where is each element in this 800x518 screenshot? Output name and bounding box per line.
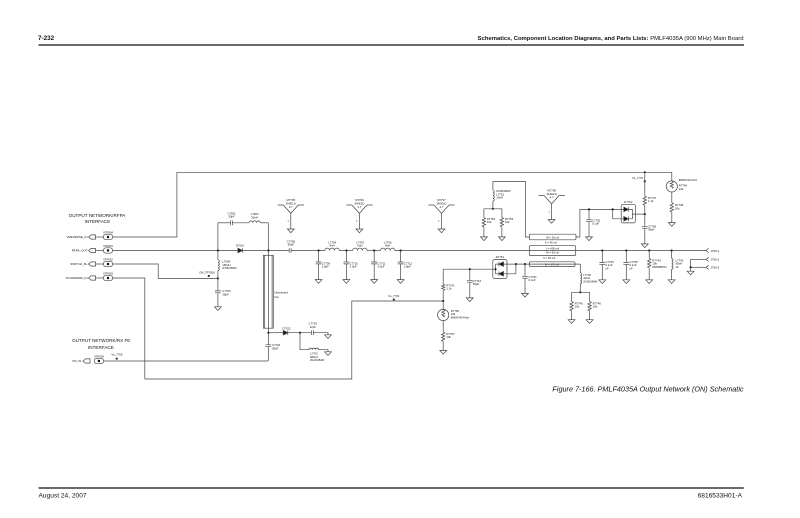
node junction L7751 bottom bbox=[492, 208, 494, 210]
inductor L7742 shunt bbox=[672, 251, 673, 280]
svg-text:D7752: D7752 bbox=[624, 200, 633, 204]
dual diode D7751 package bbox=[493, 260, 507, 279]
wire bypass riser left bbox=[217, 223, 219, 251]
node junction C7755 bbox=[625, 249, 627, 251]
svg-text:39pF: 39pF bbox=[272, 347, 279, 351]
resistor R7746 bbox=[588, 292, 591, 319]
via VTR501 bbox=[103, 248, 112, 253]
svg-text:SWITCH_B+: SWITCH_B+ bbox=[70, 262, 88, 266]
via VTR504 bbox=[103, 234, 112, 239]
svg-text:1.8pF: 1.8pF bbox=[322, 265, 329, 269]
wire D7752 internal joins bbox=[621, 209, 645, 218]
wire to termination resistors bbox=[484, 208, 502, 210]
svg-text:INTERFACE: INTERFACE bbox=[85, 219, 111, 224]
svg-text:10k: 10k bbox=[446, 335, 451, 339]
ground L7742 bbox=[668, 280, 675, 284]
node junction stripline bottom diode tap bbox=[267, 332, 269, 334]
node junction shunt cap 2 bbox=[345, 249, 347, 251]
node junction shunt cap 3 bbox=[373, 249, 375, 251]
svg-text:12pF: 12pF bbox=[310, 325, 317, 329]
svg-text:Distributed: Distributed bbox=[275, 290, 289, 294]
svg-text:uF: uF bbox=[606, 267, 610, 271]
inductor L7706 bbox=[381, 248, 395, 250]
test point ON_TP7506 dot bbox=[208, 275, 210, 277]
svg-text:RX_IN: RX_IN bbox=[72, 359, 81, 363]
wire top rail bbox=[177, 171, 672, 173]
test point Vs_7770 dot bbox=[644, 180, 646, 182]
inductor L7503 bbox=[249, 221, 260, 223]
node junction main line at bypass left bbox=[217, 249, 219, 251]
node junction C7744 tap bbox=[469, 268, 471, 270]
node junction Vs rail thermistor bbox=[442, 300, 444, 302]
shield M7707 bbox=[428, 205, 454, 229]
ground R7744 bbox=[646, 280, 653, 284]
wire D7702 to C7703 bbox=[288, 332, 312, 334]
wire rail to thermistor R7749 bbox=[671, 172, 673, 181]
ground M7706 bbox=[356, 229, 363, 233]
node junction C7752 tap bbox=[588, 208, 590, 210]
port tag VREVERSE_IN bbox=[89, 235, 96, 239]
capacitor C7756 bbox=[642, 214, 648, 244]
svg-text:1.8pF: 1.8pF bbox=[404, 265, 411, 269]
header rule bbox=[39, 44, 745, 45]
wire VFORWARD_IN to bottom rail bbox=[113, 278, 145, 379]
ground R7751 bbox=[440, 350, 447, 354]
node junction J750 bracket bbox=[690, 266, 692, 268]
svg-text:J750-2: J750-2 bbox=[711, 258, 720, 262]
wire bypass mid segment bbox=[232, 222, 249, 224]
ground C7744 bbox=[466, 298, 473, 302]
ground C7754 bbox=[599, 280, 606, 284]
svg-text:VTR503: VTR503 bbox=[103, 271, 113, 275]
svg-text:0.1uF: 0.1uF bbox=[528, 278, 535, 282]
capacitor C7708 series bbox=[289, 248, 291, 253]
svg-text:L = 400 mil: L = 400 mil bbox=[546, 247, 560, 251]
wire tag to via row3 bbox=[96, 263, 104, 265]
ground M7708 bbox=[548, 220, 555, 224]
diode D7501 bbox=[238, 248, 243, 253]
node junction shunt cap 1 bbox=[318, 249, 320, 251]
wire main L7705 to L7706 bbox=[367, 250, 380, 252]
wire RX_IN line bbox=[104, 360, 268, 362]
wire coupler reverse port stub bbox=[493, 181, 529, 237]
wire main line C7708 to L7704 bbox=[291, 250, 325, 252]
capacitor C7755 shunt bbox=[623, 251, 629, 280]
test point Vs_7706 dot bbox=[116, 358, 118, 360]
stripline distributed element bbox=[263, 255, 273, 328]
connector pin J750-3 bbox=[706, 265, 709, 269]
node junction D7751 input bbox=[494, 268, 496, 270]
svg-text:10k: 10k bbox=[679, 187, 684, 191]
wire VREVERSE_IN to top rail riser bbox=[113, 236, 177, 238]
inductor L7702 bbox=[309, 348, 319, 350]
resistor R7741 bbox=[442, 269, 445, 301]
wire J750-2 bbox=[691, 258, 706, 260]
thermistor R7749 bbox=[666, 181, 677, 192]
svg-text:S = 45 mil: S = 45 mil bbox=[545, 240, 557, 244]
svg-text:W = 50 mil: W = 50 mil bbox=[546, 251, 559, 255]
capacitor C7751 bbox=[522, 264, 528, 293]
svg-text:39pF: 39pF bbox=[648, 228, 655, 232]
resistor R7744 shunt bbox=[648, 251, 651, 280]
diode D7702 bbox=[283, 330, 288, 335]
svg-text:VTR504: VTR504 bbox=[103, 230, 113, 234]
wire bypass top left segment bbox=[218, 222, 231, 224]
wire riser to top rail bbox=[176, 172, 178, 237]
svg-text:D7751: D7751 bbox=[496, 255, 505, 259]
wire to forward termination resistors bbox=[572, 291, 590, 293]
inductor L7704 bbox=[325, 248, 339, 250]
svg-text:OUTPUT NETWORK/RX FE: OUTPUT NETWORK/RX FE bbox=[72, 338, 130, 343]
svg-text:S = 55 mil: S = 55 mil bbox=[543, 256, 555, 260]
port tag RX_IN bbox=[83, 359, 90, 363]
svg-text:10k: 10k bbox=[675, 206, 680, 210]
node junction shunt cap 4 bbox=[400, 249, 402, 251]
svg-text:VREVERSE_IN: VREVERSE_IN bbox=[66, 235, 87, 239]
svg-text:RFPA_OUT: RFPA_OUT bbox=[72, 249, 88, 253]
wire tag to via row4 bbox=[96, 277, 104, 279]
diode D7752B bbox=[624, 217, 629, 222]
node junction L7506 top bbox=[217, 277, 219, 279]
diode D7751B bbox=[499, 272, 504, 277]
resistor R7745 bbox=[570, 292, 573, 319]
svg-text:J750-1: J750-1 bbox=[711, 249, 720, 253]
svg-text:D7702: D7702 bbox=[282, 326, 291, 330]
ground C7751 bbox=[522, 293, 529, 297]
svg-text:4.7: 4.7 bbox=[289, 205, 293, 209]
wire J750 shield bracket bbox=[690, 259, 692, 271]
coupler line W26 bbox=[529, 234, 576, 240]
inductor L7705 bbox=[353, 248, 367, 250]
svg-text:9nH: 9nH bbox=[330, 244, 335, 248]
shield M7705 bbox=[278, 205, 304, 229]
svg-text:Vs_7770: Vs_7770 bbox=[632, 176, 643, 180]
ground C7756 bbox=[641, 244, 648, 248]
ground J750 bbox=[687, 271, 694, 275]
svg-text:9nH: 9nH bbox=[385, 244, 390, 248]
diode D7751A bbox=[499, 262, 504, 267]
svg-text:0.1uF: 0.1uF bbox=[592, 222, 599, 226]
svg-text:VTR501: VTR501 bbox=[103, 244, 113, 248]
svg-text:ON_TP7506: ON_TP7506 bbox=[199, 270, 215, 274]
resistor R7751 bbox=[442, 321, 445, 351]
svg-text:0805WBPS1: 0805WBPS1 bbox=[652, 266, 667, 269]
svg-text:Vs_7704: Vs_7704 bbox=[388, 294, 399, 298]
wire J750-3 bbox=[691, 266, 706, 268]
wire main L7704 to L7705 bbox=[339, 250, 352, 252]
node junction D7751 outputs join bbox=[515, 263, 517, 265]
wire coupler reverse out to detector bbox=[576, 209, 621, 237]
svg-text:10k: 10k bbox=[593, 305, 598, 309]
svg-text:Schematics, Component Location: Schematics, Component Location Diagrams,… bbox=[478, 36, 744, 42]
ground C7752 bbox=[586, 237, 593, 241]
test point Vs_7704 dot bbox=[393, 299, 395, 301]
capacitor C7752 bbox=[586, 209, 592, 237]
node junction L7745 bottom bbox=[579, 291, 581, 293]
svg-text:10k: 10k bbox=[505, 220, 510, 224]
ground C7755 bbox=[623, 280, 630, 284]
svg-text:VFORWARD_IN: VFORWARD_IN bbox=[65, 276, 87, 280]
wire branch to lower diode input bbox=[613, 209, 624, 218]
node junction diode pair branch bbox=[612, 208, 614, 210]
connector pin J750-1 bbox=[706, 248, 709, 252]
coupler line W170 bbox=[529, 262, 575, 267]
ground C7709 bbox=[315, 280, 322, 284]
svg-text:1.1k: 1.1k bbox=[446, 287, 452, 291]
capacitor C7501 bbox=[231, 221, 233, 226]
node junction main at stripline top bbox=[267, 249, 269, 251]
node junction rail R7747 bbox=[644, 171, 646, 173]
capacitor C7703 bbox=[312, 330, 314, 335]
wire D7751 internal joins bbox=[496, 264, 516, 274]
ground R7745 bbox=[568, 320, 575, 324]
svg-text:OUTPUT NETWORK/RFPA: OUTPUT NETWORK/RFPA bbox=[69, 213, 127, 218]
ground R7752 bbox=[481, 237, 488, 241]
node junction C7754 bbox=[601, 249, 603, 251]
svg-text:August 24, 2007: August 24, 2007 bbox=[39, 493, 87, 500]
svg-text:VTR502: VTR502 bbox=[103, 257, 113, 261]
resistor R7752 bbox=[482, 209, 485, 237]
svg-text:10k: 10k bbox=[487, 220, 492, 224]
resistor R7748 bbox=[670, 192, 673, 223]
shield M7706 bbox=[346, 205, 372, 229]
ground C7705 bbox=[215, 307, 222, 311]
capacitor C7754 shunt bbox=[599, 251, 605, 280]
node junction L7742 bbox=[671, 249, 673, 251]
wire main line D7501 to C7708 bbox=[243, 250, 290, 252]
svg-text:uF: uF bbox=[630, 267, 634, 271]
svg-text:2N1601B4W: 2N1601B4W bbox=[222, 267, 237, 270]
diode D7752A bbox=[624, 207, 629, 212]
svg-text:uF: uF bbox=[676, 265, 680, 269]
shield M7708 bbox=[539, 196, 565, 220]
svg-text:10k: 10k bbox=[575, 305, 580, 309]
port tag RFPA_OUT bbox=[89, 248, 96, 252]
ground C7710 bbox=[343, 280, 350, 284]
wire D7751 to coupler W170 bbox=[516, 263, 580, 265]
port tag VFORWARD_IN bbox=[89, 276, 96, 280]
capacitor C7710 shunt bbox=[344, 251, 350, 280]
capacitor C7711 shunt bbox=[371, 251, 377, 280]
svg-text:9880/9740 Parts: 9880/9740 Parts bbox=[679, 179, 698, 182]
wire main L7706 to coupler bbox=[395, 250, 706, 252]
wire stub main to stripline bbox=[267, 251, 269, 362]
via VTR505 bbox=[94, 358, 103, 363]
capacitor C7704 below stripline bbox=[266, 345, 272, 347]
svg-text:10nH: 10nH bbox=[496, 196, 503, 200]
wire bypass top right segment bbox=[260, 222, 268, 224]
inductor L7745 bbox=[580, 273, 581, 292]
wire C7703 to ground bbox=[313, 333, 328, 335]
node junction R7744 bbox=[648, 249, 650, 251]
node junction D7702 output bbox=[299, 332, 301, 334]
svg-text:2N1601B4W: 2N1601B4W bbox=[310, 359, 325, 362]
wire bypass riser right bbox=[267, 223, 269, 251]
svg-text:39pF: 39pF bbox=[288, 243, 295, 247]
via VTR503 bbox=[103, 275, 112, 280]
svg-text:6816533H01-A: 6816533H01-A bbox=[698, 492, 743, 499]
ground C7703 bbox=[325, 335, 332, 339]
connector pin J750-2 bbox=[706, 257, 709, 261]
ground L7702 bbox=[325, 352, 332, 356]
wire bottom rail bbox=[145, 301, 443, 379]
port tag SWITCH_B+ bbox=[89, 262, 96, 266]
wire coupler forward port to L7745 bbox=[579, 264, 581, 273]
wire lower detector feed bbox=[443, 268, 495, 270]
wire junction to thermistor bbox=[442, 301, 444, 309]
svg-text:30nH: 30nH bbox=[251, 215, 258, 219]
capacitor C7712 shunt bbox=[398, 251, 404, 280]
svg-text:VTR505: VTR505 bbox=[94, 354, 104, 358]
ground R7753 bbox=[499, 237, 506, 241]
resistor R7747 bbox=[643, 172, 646, 214]
svg-text:1.1k: 1.1k bbox=[648, 199, 654, 203]
svg-text:J750-3: J750-3 bbox=[711, 266, 720, 270]
svg-text:9nH: 9nH bbox=[357, 244, 362, 248]
resistor R7753 bbox=[500, 209, 503, 237]
wire tag to via row2 bbox=[96, 250, 104, 252]
svg-text:9880/9740 Parts: 9880/9740 Parts bbox=[451, 317, 470, 320]
node junction detector output bbox=[644, 213, 646, 215]
node junction C7751 tap bbox=[524, 263, 526, 265]
capacitor C7705 bbox=[215, 291, 221, 307]
inductor L7751 bbox=[493, 181, 494, 208]
svg-text:W = 26 mil: W = 26 mil bbox=[546, 235, 559, 239]
inductor L7506 bbox=[218, 251, 219, 291]
svg-text:3.0pF: 3.0pF bbox=[377, 265, 384, 269]
svg-text:Vs_7706: Vs_7706 bbox=[111, 353, 122, 357]
ground C7711 bbox=[371, 280, 378, 284]
svg-text:Figure 7-166. PMLF4035A Output: Figure 7-166. PMLF4035A Output Network (… bbox=[552, 385, 744, 394]
ground R7748 bbox=[668, 223, 675, 227]
capacitor C7744 bbox=[467, 269, 473, 298]
footer rule bbox=[39, 487, 744, 488]
svg-text:2N1601B4W: 2N1601B4W bbox=[583, 281, 598, 284]
via VTR502 bbox=[103, 261, 112, 266]
wire main RF line segment A bbox=[113, 250, 238, 252]
svg-text:4.7: 4.7 bbox=[357, 205, 361, 209]
svg-text:4.7: 4.7 bbox=[440, 205, 444, 209]
svg-text:D7501: D7501 bbox=[236, 244, 245, 248]
svg-text:W = 170 mil: W = 170 mil bbox=[545, 263, 560, 267]
svg-text:INTERFACE: INTERFACE bbox=[88, 345, 114, 350]
capacitor C7709 shunt bbox=[316, 251, 322, 280]
wire L7702 to ground bbox=[319, 350, 328, 352]
svg-text:3.3pF: 3.3pF bbox=[350, 265, 357, 269]
ground C7712 bbox=[397, 280, 404, 284]
svg-text:30pF: 30pF bbox=[228, 215, 235, 219]
wire tap to D7702 bbox=[268, 332, 283, 334]
wire branch to L7702 bbox=[300, 333, 309, 350]
svg-text:39pF: 39pF bbox=[222, 293, 229, 297]
coupler main line L400 bbox=[529, 246, 575, 256]
ground R7746 bbox=[586, 320, 593, 324]
ground M7705 bbox=[287, 229, 294, 233]
dual diode D7752 package bbox=[621, 204, 635, 223]
thermistor R7750 bbox=[438, 309, 449, 320]
svg-text:4.7: 4.7 bbox=[550, 196, 554, 200]
svg-text:39pF: 39pF bbox=[473, 282, 480, 286]
svg-text:line: line bbox=[275, 295, 280, 299]
wire SWITCH_B+ jog bbox=[113, 264, 218, 278]
ground M7707 bbox=[438, 229, 445, 233]
svg-text:7-232: 7-232 bbox=[38, 35, 55, 42]
wire tag to via row1 bbox=[96, 236, 104, 238]
